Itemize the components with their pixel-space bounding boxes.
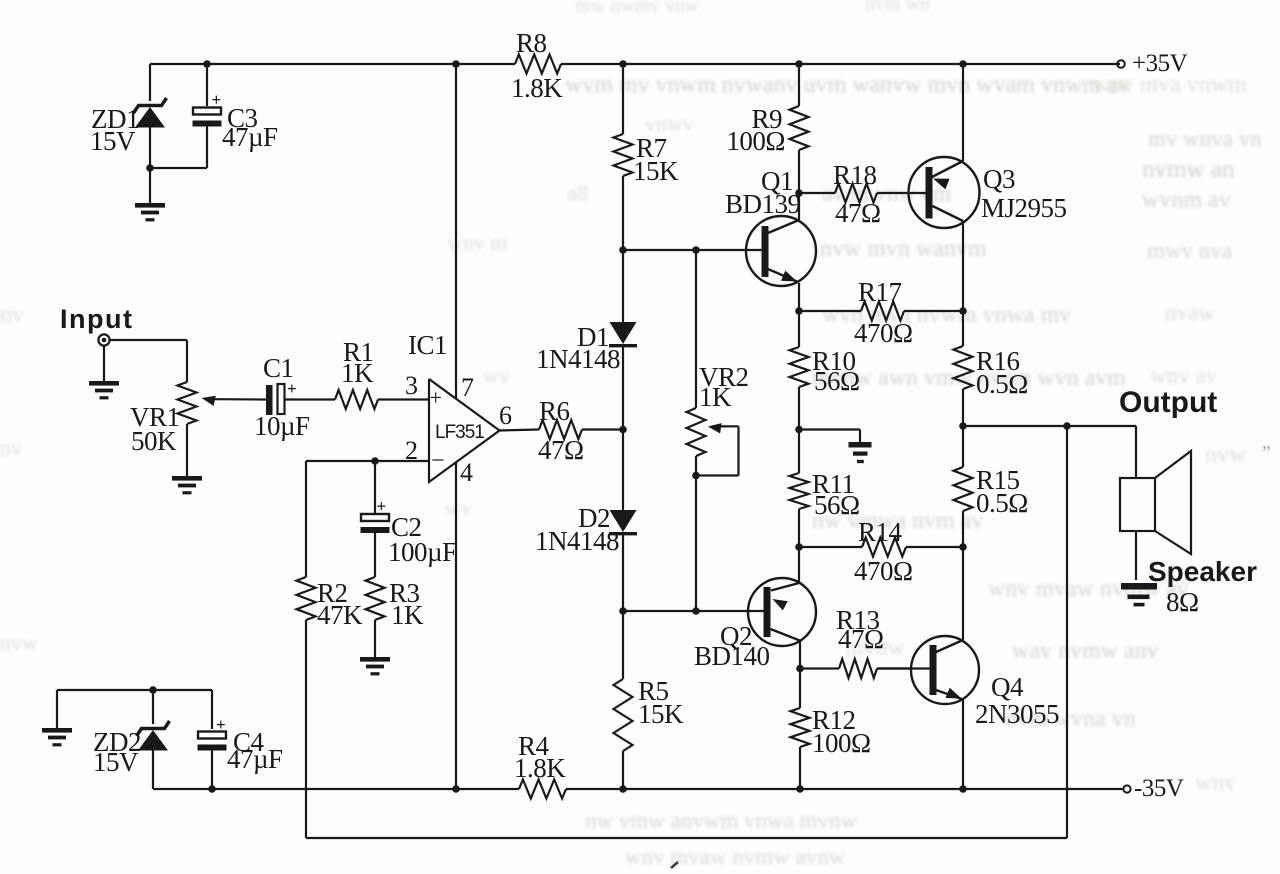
svg-text:nvaw: nvaw	[1165, 300, 1215, 325]
resistor R2	[297, 461, 364, 630]
svg-text:47µF: 47µF	[227, 744, 283, 774]
svg-text:15V: 15V	[93, 747, 139, 777]
svg-text:wnv: wnv	[1195, 770, 1236, 796]
node feedback tap	[1063, 422, 1071, 430]
svg-text:0.5Ω: 0.5Ω	[976, 369, 1028, 399]
svg-text:mwv nva: mwv nva	[1147, 238, 1232, 263]
wire C1 to R1	[285, 398, 336, 400]
svg-text:MJ2955: MJ2955	[981, 193, 1067, 223]
resistor R9	[726, 64, 808, 193]
wire R1 to pin3	[378, 398, 429, 400]
transistor Q4 2N3055	[911, 547, 1059, 789]
potentiometer VR1	[130, 382, 197, 476]
svg-text:15K: 15K	[638, 699, 684, 729]
svg-text:+: +	[212, 90, 221, 109]
svg-text:BD139: BD139	[725, 189, 801, 219]
terminal -35V	[1123, 775, 1183, 802]
transistor Q1 BD139	[725, 166, 816, 311]
svg-text:100Ω: 100Ω	[812, 728, 871, 758]
node bottom-rail R5	[619, 785, 627, 793]
wire +35V top rail	[150, 63, 1120, 65]
wire R13 to Q4 base	[877, 667, 930, 669]
svg-text:47Ω: 47Ω	[538, 435, 584, 465]
node bottom-rail pin4	[452, 785, 460, 793]
node pin2 C2 junction	[371, 457, 379, 465]
svg-text:1.8K: 1.8K	[514, 753, 566, 783]
svg-text:+: +	[377, 497, 386, 516]
wire ZD2 ground rail	[57, 689, 212, 691]
svg-text:47K: 47K	[317, 600, 363, 630]
svg-text:-35V: -35V	[1134, 775, 1184, 802]
wire IC1 pin7 supply	[455, 64, 457, 399]
wire D column mid	[622, 430, 624, 511]
resistor R17	[799, 277, 963, 348]
node ZD1-C3 junction	[146, 164, 154, 172]
svg-text:wvm mv vnwm nvwanv uvm wanvw m: wvm mv vnwm nvwanv uvm wanvw mvn wvam vn…	[565, 72, 1130, 98]
capacitor C1	[254, 353, 310, 441]
node ZD2 top	[149, 686, 157, 694]
wiper VR2 arrow	[696, 423, 739, 475]
diode D1 1N4148	[536, 322, 637, 430]
node top-rail C3 junction	[203, 60, 211, 68]
resistor R4	[514, 731, 566, 799]
resistor R16	[954, 311, 1028, 426]
svg-text:wav nvmw anv: wav nvmw anv	[1012, 638, 1159, 664]
node top-rail Q3 emitter junction	[959, 60, 967, 68]
wire pin6 to R6	[500, 430, 540, 431]
svg-text:1.8K: 1.8K	[511, 73, 563, 103]
node R13 left	[796, 665, 804, 673]
svg-text:1N4148: 1N4148	[535, 526, 619, 556]
terminal Input jack	[98, 334, 109, 345]
svg-text:470Ω: 470Ω	[854, 318, 913, 348]
ground ZD1	[135, 168, 165, 221]
capacitor C3	[193, 90, 279, 168]
resistor R11	[790, 430, 860, 548]
resistor R6	[538, 396, 584, 465]
svg-text:mv wnva vn: mv wnva vn	[1148, 126, 1262, 151]
resistor R7	[614, 64, 680, 186]
svg-text:mw nwmv vnw: mw nwmv vnw	[575, 0, 700, 17]
zener ZD2	[93, 690, 170, 789]
node R14 left	[795, 543, 803, 551]
wire IC1 pin2	[306, 460, 429, 462]
svg-text:R18: R18	[833, 160, 877, 190]
resistor R8	[511, 28, 563, 103]
node A R9-R18-Q1	[795, 189, 803, 197]
capacitor C4	[198, 690, 284, 789]
svg-text:4: 4	[460, 458, 473, 487]
svg-text:47µF: 47µF	[222, 122, 278, 152]
resistor R13	[800, 605, 911, 678]
node R14 right	[959, 543, 967, 551]
svg-text:R17: R17	[858, 277, 902, 307]
svg-text:6: 6	[499, 401, 512, 430]
wire C3 to ZD1	[150, 167, 207, 169]
svg-text:nv: nv	[0, 435, 22, 460]
transistor Q3 MJ2955	[909, 64, 1067, 311]
node R17 right	[959, 307, 967, 315]
svg-text:+35V: +35V	[1132, 50, 1188, 77]
svg-text:+: +	[216, 715, 225, 734]
ground ZD2 rail	[42, 690, 72, 746]
transistor Q2 BD140	[694, 547, 816, 671]
svg-text:a8: a8	[567, 180, 588, 205]
resistor R5	[614, 611, 685, 789]
svg-text:wnv av: wnv av	[1150, 363, 1218, 388]
wire D column upper	[622, 250, 624, 322]
resistor R18	[799, 160, 926, 228]
svg-text:Input: Input	[60, 304, 133, 334]
svg-text:8Ω: 8Ω	[1166, 587, 1199, 617]
ground R3	[360, 657, 390, 675]
wire -35V bottom rail	[153, 788, 1123, 790]
zener ZD1	[90, 98, 167, 168]
svg-text:3: 3	[405, 371, 418, 400]
svg-text:Speaker: Speaker	[1148, 556, 1257, 587]
resistor R15	[954, 426, 1028, 547]
node top-rail R7 junction	[619, 60, 627, 68]
svg-text:Q3: Q3	[983, 164, 1015, 194]
svg-text:wv: wv	[445, 495, 472, 520]
svg-text:15K: 15K	[633, 156, 679, 186]
resistor R14	[799, 517, 963, 586]
svg-text:15V: 15V	[90, 126, 136, 156]
node R17 left	[795, 307, 803, 315]
svg-text:R8: R8	[516, 28, 547, 58]
node top-rail R9 junction	[795, 60, 803, 68]
svg-text:nvm wn: nvm wn	[865, 0, 930, 15]
node R6 diode column	[619, 426, 627, 434]
node VR2 top junction	[692, 246, 700, 254]
wire ZD1 top lead	[149, 64, 151, 101]
svg-text:100µF: 100µF	[388, 537, 457, 567]
svg-text:47Ω: 47Ω	[838, 624, 884, 654]
potentiometer VR2	[687, 250, 749, 611]
svg-text:LF351: LF351	[435, 422, 484, 443]
svg-text:+: +	[430, 385, 442, 410]
wire speaker lead	[1135, 426, 1137, 478]
wire C3 top lead	[206, 64, 208, 106]
wire IC1 pin4 supply	[455, 462, 457, 790]
svg-text:50K: 50K	[131, 426, 177, 456]
ground input jack	[89, 346, 119, 400]
svg-text:R6: R6	[539, 396, 570, 426]
node bottom-rail Q4 emitter	[959, 785, 967, 793]
node VR2 bottom junction	[692, 607, 700, 615]
svg-text:Q4: Q4	[991, 672, 1024, 702]
op-amp IC1	[405, 330, 512, 487]
svg-text:„: „	[1262, 431, 1271, 453]
svg-text:56Ω: 56Ω	[814, 490, 860, 520]
ground mid bias	[799, 430, 872, 464]
label Output	[1119, 386, 1217, 419]
svg-text:7: 7	[461, 373, 474, 402]
speaker	[1120, 451, 1257, 617]
resistor R1	[335, 337, 378, 409]
svg-text:10µF: 10µF	[254, 411, 310, 441]
svg-text:0.5Ω: 0.5Ω	[976, 488, 1028, 518]
svg-text:nv: nv	[0, 302, 24, 328]
node R10-R11 ground tap	[795, 426, 803, 434]
ground VR1	[172, 476, 202, 494]
svg-text:R14: R14	[858, 517, 903, 547]
svg-text:1N4148: 1N4148	[536, 344, 620, 374]
node bottom-rail R12	[796, 785, 804, 793]
wire Q1 base row	[623, 249, 762, 251]
node diode column top	[619, 246, 627, 254]
diode D2 1N4148	[535, 503, 637, 611]
svg-text:nw vmw anvwm vnwa mvnw: nw vmw anvwm vnwa mvnw	[585, 808, 858, 833]
svg-text:1K: 1K	[391, 600, 424, 630]
svg-text:1K: 1K	[699, 382, 732, 412]
svg-text:56Ω: 56Ω	[814, 366, 860, 396]
capacitor C2	[361, 461, 458, 577]
node bottom-rail C4	[208, 785, 216, 793]
label Input	[60, 304, 133, 334]
terminal +35V	[1117, 50, 1187, 77]
svg-text:C1: C1	[263, 353, 294, 383]
wire Q2 base row	[623, 610, 764, 612]
svg-text:Output: Output	[1119, 386, 1217, 419]
svg-text:470Ω: 470Ω	[854, 556, 913, 586]
svg-text:100Ω: 100Ω	[726, 126, 785, 156]
node top-rail IC1-pin7 junction	[452, 60, 460, 68]
svg-text:wv: wv	[483, 363, 510, 388]
svg-text:nvmw an: nvmw an	[1142, 156, 1235, 183]
resistor R10	[790, 311, 860, 430]
ground speaker	[1121, 583, 1157, 606]
svg-text:nvw: nvw	[0, 630, 38, 655]
svg-text:IC1: IC1	[408, 330, 447, 360]
svg-text:47Ω: 47Ω	[835, 198, 881, 228]
svg-text:2N3055: 2N3055	[975, 699, 1059, 729]
node VR2 wiper junction	[692, 472, 700, 480]
wire feedback	[306, 426, 1067, 838]
wire input to VR1	[110, 340, 188, 382]
svg-text:nvw: nvw	[1205, 442, 1247, 468]
svg-text:1K: 1K	[341, 358, 374, 388]
svg-text:wnv mvaw nvmw avnw: wnv mvaw nvmw avnw	[625, 844, 846, 869]
wire R6 to node	[582, 428, 623, 430]
wire R7 to Q1 base row	[622, 176, 624, 250]
resistor R3	[366, 577, 425, 657]
resistor R12	[791, 669, 871, 790]
node output junction	[959, 422, 967, 430]
svg-text:wvnm av: wvnm av	[1142, 187, 1231, 213]
wire output row	[963, 425, 1136, 427]
node D column Q2-base row	[619, 607, 627, 615]
svg-text:−: −	[431, 448, 444, 474]
svg-text:BD140: BD140	[694, 641, 770, 671]
wiper VR1 arrow	[202, 396, 267, 406]
